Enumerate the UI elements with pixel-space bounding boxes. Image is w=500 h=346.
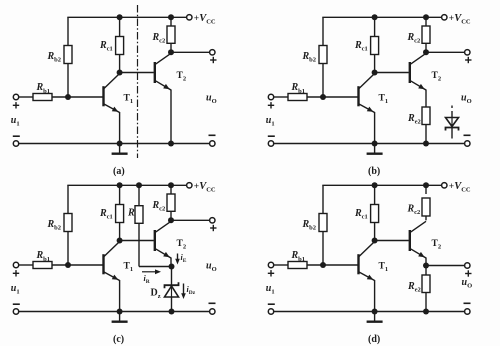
- wire Rc2 to output node (A): [170, 43, 172, 52]
- wire T1 collector to T2 base (D): [375, 240, 409, 242]
- wire T2 emitter to Re2 (B): [425, 90, 427, 108]
- wire ground rail (B): [274, 143, 465, 145]
- wire Rc2 to T2 collector (D): [425, 216, 427, 220]
- wire base node up to Rb2 (C): [67, 232, 69, 266]
- terminal output- (D): [465, 309, 470, 314]
- wire base node up to Rb2 (B): [322, 64, 324, 98]
- wire top rail to R (C): [138, 185, 140, 205]
- wire emitter node to terminal (D): [426, 265, 465, 267]
- label - output (D): [464, 302, 471, 304]
- terminal input- (B): [268, 141, 273, 146]
- wire top rail to Rc2 (A): [170, 17, 172, 26]
- transistor T1 (D): [357, 254, 359, 274]
- terminal input+ (B): [268, 94, 273, 99]
- wire output node to terminal (B): [426, 51, 465, 53]
- transistor T1 (C): [102, 254, 104, 274]
- resistor Rb2 (D): [319, 214, 327, 232]
- label + input (C): [13, 272, 19, 274]
- resistor Rc2 (D): [422, 198, 430, 216]
- wire Rb2 to top rail (C): [67, 185, 69, 213]
- node rail-Rc1 (C): [117, 182, 123, 188]
- wire base node up to Rb2 (A): [67, 64, 69, 98]
- wire Rc1 to collector node (A): [119, 55, 121, 73]
- wire input+ to Rb1 (C): [19, 264, 33, 266]
- svg-text:(c): (c): [113, 334, 124, 345]
- node T1 collector (D): [372, 238, 378, 244]
- wire Rb1 to base node (A): [52, 96, 103, 98]
- wire input+ to Rb1 (B): [274, 96, 288, 98]
- label - input (D): [268, 303, 275, 305]
- wire Rb1 to base node (D): [307, 264, 358, 266]
- terminal output- (B): [465, 141, 470, 146]
- diode cathode lead (B): [451, 128, 453, 139]
- terminal output- (A): [210, 141, 215, 146]
- resistor Rb1 (B): [288, 94, 307, 101]
- label - output (C): [209, 302, 216, 304]
- resistor Rc2 (B): [422, 26, 430, 43]
- transistor T2 (B): [409, 62, 411, 83]
- wire Rb1 to base node (C): [52, 264, 103, 266]
- ground (D): [374, 312, 376, 322]
- label + input (D): [268, 272, 274, 274]
- resistor Rb2 (B): [319, 46, 327, 64]
- wire T2 emitter down to rail (A): [170, 90, 172, 144]
- resistor Rb1 (C): [33, 262, 52, 269]
- node T2 emitter (C): [169, 264, 175, 270]
- resistor Rc1 (D): [371, 205, 379, 223]
- transistor T2 (A): [154, 62, 156, 83]
- node Re2-rail (B): [423, 141, 429, 147]
- node rail-Rc2 (A): [168, 14, 174, 20]
- node Dz-rail (C): [169, 309, 175, 315]
- terminal input+ (D): [268, 262, 273, 267]
- resistor Rb1 (D): [288, 262, 307, 269]
- ground (C): [119, 312, 121, 322]
- label - input (C): [13, 303, 20, 305]
- terminal output+ (C): [210, 218, 215, 223]
- node T1 emitter-rail (D): [372, 309, 378, 315]
- terminal output+ (B): [465, 50, 470, 55]
- label + output (D): [465, 273, 471, 275]
- terminal input+ (C): [13, 262, 18, 267]
- wire Rb2 to top rail (B): [322, 17, 324, 45]
- wire T1 emitter to ground rail (B): [374, 112, 376, 144]
- wire T2 emitter to node (C): [170, 258, 172, 267]
- terminal +Vcc (C): [187, 183, 192, 188]
- svg-text:(b): (b): [368, 166, 380, 177]
- wire R down (C): [138, 223, 140, 266]
- node T1 emitter-rail (B): [372, 141, 378, 147]
- label + output (A): [210, 59, 216, 61]
- label + input (A): [13, 104, 19, 106]
- terminal output+ (A): [210, 50, 215, 55]
- current arrow iE (C): [177, 254, 179, 262]
- node rail-Rc2 (B): [423, 14, 429, 20]
- svg-text:(a): (a): [113, 166, 125, 177]
- resistor R (C): [135, 206, 143, 224]
- wire Rb1 to base node (B): [307, 96, 358, 98]
- node T1 collector (A): [117, 70, 123, 76]
- wire node to Dz (C): [171, 267, 173, 286]
- wire T1 emitter to ground rail (A): [119, 112, 121, 144]
- terminal output+ (D): [465, 263, 470, 268]
- node rail-Rc2 (D): [423, 182, 429, 188]
- wire T1 emitter to ground rail (C): [119, 280, 121, 312]
- wire base node up to Rb2 (D): [322, 232, 324, 266]
- node rail-Rc2 (C): [168, 182, 174, 188]
- wire Rc1 to collector node (B): [374, 55, 376, 73]
- diode cathode bar (B): [446, 128, 459, 131]
- resistor Rc1 (A): [116, 37, 124, 55]
- separator dash-dot line (A): [137, 5, 139, 158]
- label - input (B): [268, 135, 275, 137]
- node base (D): [320, 262, 326, 268]
- node T1 emitter-rail (C): [117, 309, 123, 315]
- wire ground rail (A): [19, 143, 210, 145]
- node T1 collector (C): [117, 238, 123, 244]
- svg-text:(d): (d): [368, 334, 380, 345]
- wire Rb2 to top rail (D): [322, 185, 324, 213]
- terminal input- (D): [268, 309, 273, 314]
- resistor Rb1 (A): [33, 94, 52, 101]
- wire top rail to Rc2 (B): [425, 17, 427, 26]
- wire T1 emitter to ground rail (D): [374, 280, 376, 312]
- resistor Rb2 (A): [64, 46, 72, 64]
- wire top rail to Rc1 (C): [119, 185, 121, 204]
- ground (B): [374, 144, 376, 154]
- wire Rb2 to top rail (A): [67, 17, 69, 45]
- wire output node to terminal (C): [171, 219, 210, 221]
- transistor T1 (B): [357, 86, 359, 106]
- wire ground rail (D): [274, 311, 465, 313]
- node base (A): [65, 94, 71, 100]
- terminal +Vcc (D): [442, 183, 447, 188]
- wire top rail to Rc1 (A): [119, 17, 121, 36]
- node output (B): [423, 49, 429, 55]
- resistor Re2 (D): [422, 275, 430, 293]
- terminal input- (A): [13, 141, 18, 146]
- terminal input+ (A): [13, 94, 18, 99]
- node rail-Rc1 (A): [117, 14, 123, 20]
- wire +Vcc rail (B): [322, 16, 441, 18]
- wire Rc1 to collector node (D): [374, 223, 376, 241]
- wire +Vcc rail (D): [322, 184, 441, 186]
- wire R to emitter node (C): [139, 266, 171, 268]
- wire T1 collector to T2 base (A): [120, 72, 154, 74]
- wire ground rail (C): [19, 311, 210, 313]
- label - input (A): [13, 135, 20, 137]
- wire Dz to rail (C): [171, 297, 173, 312]
- transistor T2 (D): [409, 230, 411, 251]
- node base (B): [320, 94, 326, 100]
- resistor Rc2 (A): [167, 26, 175, 43]
- wire Rc1 to collector node (C): [119, 223, 121, 241]
- node output (C): [168, 217, 174, 223]
- node base (C): [65, 262, 71, 268]
- node rail-Rc1 (B): [372, 14, 378, 20]
- svg-text:R: R: [127, 207, 135, 218]
- zener Dz cathode bar (C): [165, 282, 179, 288]
- terminal +Vcc (A): [187, 15, 192, 20]
- wire top rail to Rc1 (D): [374, 185, 376, 204]
- resistor Rc1 (B): [371, 37, 379, 55]
- resistor Re2 (B): [422, 107, 430, 125]
- transistor T2 (C): [154, 230, 156, 251]
- wire T1 collector to T2 base (B): [375, 72, 409, 74]
- wire +Vcc rail (A): [67, 16, 186, 18]
- label + output (B): [465, 59, 471, 61]
- node T1 emitter-rail (A): [117, 141, 123, 147]
- wire T2 emitter to Re2 (D): [425, 258, 427, 276]
- node Re2-rail (D): [423, 309, 429, 315]
- wire Re2 to rail (D): [425, 293, 427, 312]
- diode D (B): [446, 118, 459, 127]
- terminal input- (C): [13, 309, 18, 314]
- wire Rc2 to output node (C): [170, 211, 172, 220]
- node output (A): [168, 49, 174, 55]
- diode anode stub (B): [451, 106, 453, 109]
- zener Dz triangle (C): [165, 286, 179, 297]
- terminal +Vcc (B): [442, 15, 447, 20]
- current arrow iDz (C): [183, 284, 185, 296]
- node rail-R (C): [136, 182, 142, 188]
- node rail-Rc1 (D): [372, 182, 378, 188]
- wire top rail to Rc2 (D): [425, 185, 427, 194]
- transistor T1 (A): [102, 86, 104, 106]
- node T2 emitter-rail (A): [168, 141, 174, 147]
- wire output node to terminal (A): [171, 51, 210, 53]
- node T2 emitter-output (D): [423, 263, 429, 269]
- wire T1 collector to T2 base (C): [120, 240, 154, 242]
- wire Re2 to rail (B): [425, 125, 427, 144]
- current arrow iR (C): [142, 271, 158, 273]
- resistor Rc2 (C): [167, 194, 175, 211]
- resistor Rc1 (C): [116, 205, 124, 223]
- ground (A): [119, 144, 121, 154]
- label + output (C): [210, 227, 216, 229]
- wire Rc2 to output node (B): [425, 43, 427, 52]
- resistor Rb2 (C): [64, 214, 72, 232]
- terminal output- (C): [210, 309, 215, 314]
- label - output (A): [209, 134, 216, 136]
- wire input+ to Rb1 (A): [19, 96, 33, 98]
- wire input+ to Rb1 (D): [274, 264, 288, 266]
- wire top rail to Rc2 (C): [170, 185, 172, 194]
- label + input (B): [268, 104, 274, 106]
- label - output (B): [464, 134, 471, 136]
- node T1 collector (B): [372, 70, 378, 76]
- wire +Vcc rail (C): [67, 184, 186, 186]
- wire top rail to Rc1 (B): [374, 17, 376, 36]
